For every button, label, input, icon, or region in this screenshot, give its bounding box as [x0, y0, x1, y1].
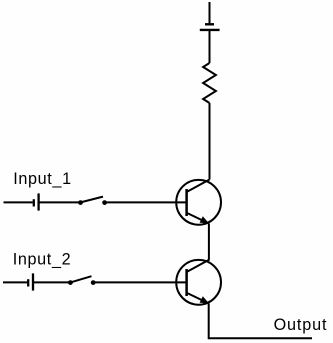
svg-text:Input_2: Input_2 — [13, 251, 72, 269]
wire battery to resistor — [209, 30, 211, 63]
wire Input_2 left lead — [3, 281, 27, 283]
battery V1 (supply cell) — [200, 24, 220, 30]
svg-text:Output: Output — [274, 316, 328, 334]
switch SW2 (open, Input_2) — [68, 276, 96, 285]
wire Input_1 left lead — [4, 201, 33, 203]
wire V+ top lead — [209, 2, 211, 24]
wire SW1 to Q1 base — [105, 201, 187, 203]
wire Q2 emitter down — [209, 303, 312, 338]
switch SW1 (open, Input_1) — [78, 197, 107, 205]
wire battery V3 to switch SW2 — [33, 281, 69, 283]
resistor R1 — [203, 63, 216, 103]
wire Q1 emitter to Q2 collector — [208, 223, 210, 259]
svg-text:Input_1: Input_1 — [13, 170, 72, 188]
battery V2 (Input_1 source) — [34, 193, 39, 210]
wire resistor to Q1 collector — [209, 103, 211, 180]
transistor Q1 (NPN, upper) — [176, 180, 221, 225]
battery V3 (Input_2 source) — [28, 273, 33, 290]
wire SW2 to Q2 base — [93, 281, 186, 283]
wire battery V2 to switch SW1 — [39, 201, 79, 203]
transistor Q2 (NPN, lower) — [176, 260, 221, 305]
